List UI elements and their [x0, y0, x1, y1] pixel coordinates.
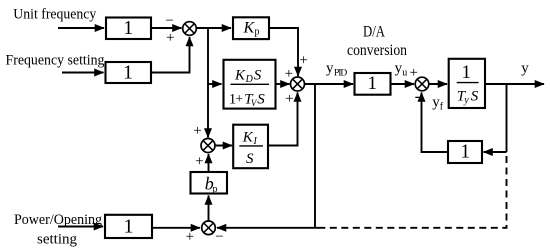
svg-text:D/A: D/A [363, 24, 385, 41]
svg-text:-: - [415, 89, 420, 105]
svg-text:Frequency setting: Frequency setting [6, 53, 105, 69]
svg-text:+: + [235, 92, 243, 107]
svg-text:+: + [166, 30, 174, 46]
svg-text:S: S [471, 88, 479, 104]
svg-text:f: f [440, 101, 444, 112]
svg-text:−: − [165, 13, 173, 29]
svg-text:+: + [193, 123, 201, 139]
svg-text:+: + [285, 91, 293, 107]
svg-text:y: y [326, 61, 334, 77]
svg-text:y: y [463, 95, 469, 106]
svg-text:K: K [242, 130, 254, 146]
svg-text:PID: PID [334, 69, 347, 79]
svg-text:+: + [299, 52, 307, 68]
svg-text:D: D [245, 74, 254, 85]
svg-text:setting: setting [37, 232, 77, 248]
svg-text:Power/Opening: Power/Opening [14, 212, 102, 228]
svg-text:+: + [195, 153, 203, 169]
svg-text:Unit frequency: Unit frequency [13, 7, 96, 23]
svg-text:p: p [255, 27, 260, 38]
svg-text:+: + [285, 66, 293, 82]
svg-text:p: p [213, 184, 218, 195]
svg-text:1: 1 [123, 17, 133, 39]
svg-text:1: 1 [124, 215, 134, 237]
svg-text:1: 1 [462, 62, 472, 83]
svg-text:K: K [234, 68, 246, 84]
svg-text:1: 1 [368, 73, 378, 94]
svg-text:−: − [215, 229, 223, 245]
svg-text:+: + [409, 65, 417, 81]
svg-text:u: u [402, 68, 407, 79]
svg-text:I: I [253, 136, 258, 147]
svg-text:S: S [254, 68, 262, 84]
svg-text:y: y [521, 61, 529, 77]
svg-text:conversion: conversion [347, 42, 407, 59]
svg-text:S: S [257, 91, 265, 107]
svg-text:1: 1 [123, 62, 133, 84]
svg-text:+: + [186, 229, 194, 245]
svg-text:S: S [246, 151, 254, 167]
svg-text:1: 1 [460, 142, 470, 163]
